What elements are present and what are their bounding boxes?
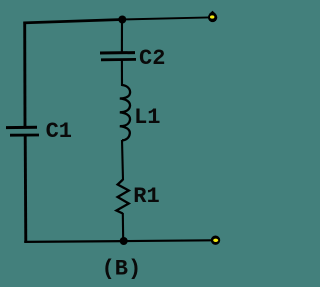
resistor R1 (116, 180, 128, 214)
wire left vertical lower (24, 136, 27, 242)
wire top horizontal left of junction (23, 20, 122, 23)
svg-text:R1: R1 (133, 184, 159, 209)
capacitor C2 (100, 53, 136, 60)
capacitor C1 (6, 127, 39, 135)
wire L1 to R1 (122, 140, 123, 180)
terminal bottom right (211, 236, 220, 245)
node junction top (118, 16, 126, 24)
wire R1 to bottom junction (122, 213, 124, 241)
node junction bottom (120, 237, 128, 245)
wire C2 to L1 (121, 60, 123, 86)
wire middle vertical: junction to C2 (121, 20, 123, 53)
wire bottom horizontal (24, 240, 211, 242)
svg-text:(B): (B) (102, 257, 142, 282)
inductor L1 (120, 85, 130, 140)
svg-text:C1: C1 (46, 119, 72, 144)
terminal top right (208, 11, 217, 22)
svg-text:C2: C2 (139, 46, 165, 71)
wire left vertical upper (23, 22, 26, 127)
svg-text:L1: L1 (134, 105, 160, 130)
wire top horizontal right of junction (122, 17, 209, 19)
